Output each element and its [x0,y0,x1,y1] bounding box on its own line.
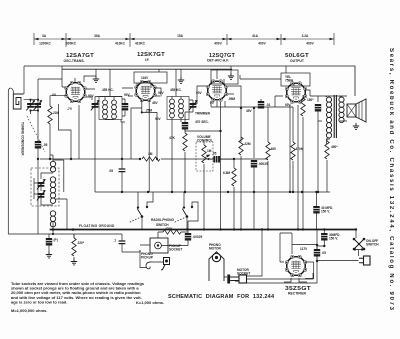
node label 50L6GT [285,53,309,63]
node box V4 [281,73,310,86]
capacitor .05 wiper [214,156,221,163]
svg-text:.00025: .00025 [193,235,203,239]
svg-text:460: 460 [271,147,277,151]
wire IF2 top feed [175,69,177,96]
svg-text:FLOATING GROUND: FLOATING GROUND [79,224,115,228]
ground V3 in box [228,73,234,79]
wire floating ground bus [50,229,356,231]
svg-text:455 KC.: 455 KC. [102,88,114,92]
resistor R 1M horizontal [142,157,160,161]
transformer output primary [326,97,331,138]
wire IF2 wiring [172,97,193,193]
wire mid rail AVC [40,158,268,160]
node junctions [37,107,357,262]
speaker SP1 [347,96,366,122]
wire IF1 secondary drop [121,120,125,123]
wire .1 leads [74,234,140,252]
svg-text:SWITCH: SWITCH [366,243,379,247]
svg-text:0V: 0V [52,93,57,97]
svg-text:(P): (P) [54,238,58,242]
svg-text:OUTPUT: OUTPUT [290,59,305,63]
svg-text:.00025: .00025 [258,162,268,166]
resistor V4 cathode 180 [301,98,305,116]
resistor R1 22M [48,106,52,124]
svg-text:1200KC: 1200KC [39,42,51,46]
svg-text:90V: 90V [285,103,292,107]
svg-text:45V: 45V [152,101,159,105]
resistor field 450 [325,141,329,159]
wire dash link [27,116,45,152]
wire V4 drops [240,66,294,86]
wire 470K phono leads [158,231,186,233]
inductor IF2 primary [170,99,175,118]
svg-text:DET-AVC-A.F.: DET-AVC-A.F. [207,59,229,63]
wire dimension line [34,33,334,47]
svg-text:.01: .01 [266,103,271,107]
svg-text:RECTIFIER: RECTIFIER [288,292,306,296]
capacitor 40MFD B [321,233,327,241]
svg-text:15A: 15A [177,34,184,38]
svg-text:400V: 400V [258,42,266,46]
wire plug line [317,260,359,262]
capacitor .05 left [119,169,126,172]
pickup socket box [140,232,168,253]
wire phono caps wiring [162,232,189,246]
inductor IF1 primary [103,100,108,119]
ground V2 right [178,77,184,83]
svg-text:.25M: .25M [145,109,152,113]
node label 12SQ7GT [207,53,235,63]
capacitor osc trimmer C2 [33,100,42,110]
svg-text:M=1,000,000 ohms.: M=1,000,000 ohms. [11,308,47,313]
wire IF1 wiring [95,97,125,193]
node label 12SK7GT [137,52,165,62]
svg-text:K=1,000 ohms.: K=1,000 ohms. [136,300,164,305]
wire gnd stub V2 [180,69,182,77]
svg-text:470K: 470K [296,147,304,151]
wire .22M lower [240,156,242,230]
capacitor .1 phono [119,241,126,244]
svg-text:90V: 90V [88,94,95,98]
tube V3 12SQ7GT [206,80,228,102]
wire cap drop [317,112,319,193]
wire V5 bottom pins [284,278,307,282]
wire 22M leads [50,96,66,159]
inductor osc coil L2 [50,161,55,227]
wire mid2 leads [220,158,234,160]
ground speaker [353,123,359,129]
phono pickup head [140,250,170,270]
capacitor .00025 phono [185,233,191,241]
resistor 470K phono [163,230,181,234]
capacitor antenna trimmer C1 [26,100,35,110]
svg-text:150 V.: 150 V. [321,210,330,214]
wire 6.8M leads [185,102,234,230]
svg-text:SOCKET: SOCKET [169,248,182,252]
wire V3 side links [197,86,241,107]
svg-text:OSC-TRANS.: OSC-TRANS. [63,59,84,63]
wire coupling leads [260,99,262,109]
capacitor C .02 [315,104,321,112]
wire V1 plate links [86,89,95,100]
node misc voltage labels [67,101,308,251]
wire transformer leads [318,96,347,144]
wire V3 drops [217,66,231,84]
svg-text:220*: 220* [78,241,85,245]
capacitor C .01 coupling [258,101,264,109]
wire antenna top lead [24,66,62,94]
svg-text:180*: 180* [307,98,314,102]
svg-text:3.2A: 3.2A [302,34,309,38]
wire cathode leads [302,95,304,192]
wire 40A leads [316,192,318,230]
transformer output core [334,95,336,138]
svg-text:SCHEMATIC DIAGRAM FOR 132.2: SCHEMATIC DIAGRAM FOR 132.244 [168,294,275,300]
capacitor osc padder C3 [37,179,46,189]
wire 220 leads [73,257,75,259]
capacitor IF1 trimmer right [122,103,128,111]
motor socket plug [235,275,247,283]
wire V1 grid loop [62,66,96,87]
svg-text:TRIMMER: TRIMMER [195,112,211,116]
svg-text:TUNING CONDENSER: TUNING CONDENSER [21,122,25,156]
wire lower rail [95,191,330,193]
svg-text:75BA: 75BA [285,79,294,83]
svg-text:0V: 0V [210,101,215,105]
svg-text:.22M: .22M [244,142,251,146]
svg-text:117V: 117V [300,247,308,251]
wire field leads [327,138,331,192]
potentiometer R volume [196,142,213,171]
svg-text:PICKUP: PICKUP [141,256,154,260]
transformer IF1 box [99,97,122,120]
svg-text:MOTOR: MOTOR [209,247,222,251]
tube V4 50L6GT [285,82,307,104]
resistor .22M [239,137,243,155]
tube V1 12SA7GT [65,81,87,103]
svg-text:47K: 47K [169,136,176,140]
ground 220 [71,259,77,265]
inductor IF2 secondary [179,99,184,118]
svg-text:400V: 400V [214,42,222,46]
svg-text:12SK7GT: 12SK7GT [137,52,165,58]
svg-text:470 SEC.: 470 SEC. [195,120,209,124]
capacitor IF2 trimmer [189,100,198,110]
svg-text:450*: 450* [331,145,338,149]
node dim labels [39,34,314,46]
svg-text:41A: 41A [252,34,259,38]
capacitor .05 bus left [46,238,52,246]
tube V2 12SK7GT [135,80,157,102]
switch S2 radio-phono [174,206,193,223]
wire pot leads [203,140,205,230]
phono motor M [209,252,224,281]
inductor IF1 secondary [112,100,117,119]
wire 460 lower [267,161,269,230]
wire .05 rect leads [317,246,324,261]
transformer IF2 box [167,97,189,120]
svg-text:3A: 3A [42,34,47,38]
svg-text:1M: 1M [148,152,153,156]
wire top B+ rail [62,66,355,96]
svg-text:6.8M: 6.8M [223,171,230,175]
node footnote paragraph [11,281,164,313]
wire wiper arrow [208,158,214,160]
svg-text:470K: 470K [165,227,173,231]
node dashed osc box [31,168,59,206]
ground V1 [93,76,99,82]
AC plug P1 [359,256,370,265]
wire switch connections [355,230,362,257]
wire output top rail [310,96,347,102]
wire padder wiring [34,173,53,205]
wire switch drops [138,192,198,233]
svg-text:I.F.: I.F. [145,58,150,62]
resistor 220 bus [72,238,76,256]
svg-text:.05: .05 [322,251,327,255]
svg-text:age is zero or too low to read: age is zero or too low to read. [11,299,67,304]
resistor 470K [291,142,295,160]
wire motor socket cords [247,230,318,284]
wire V1 bottom drops [59,104,80,159]
wire 470K leads [275,107,293,192]
svg-text:90V: 90V [155,117,162,121]
node box V3 [211,70,238,84]
wire V3 rail [211,96,281,158]
capacitor IF2 fixed [182,122,188,130]
svg-text:.05: .05 [212,152,217,156]
node dim arrows [34,38,334,40]
svg-text:150 V.: 150 V. [329,237,338,241]
wire antenna left drop [8,88,13,234]
svg-text:RADIO-PHONO: RADIO-PHONO [151,218,175,222]
node heater dots [70,158,299,231]
wire V2 side links [122,88,161,97]
wire 40B leads [323,230,325,247]
wire .05 leads [121,159,123,192]
node label 12SA7GT [63,53,94,63]
capacitor .00025 mid [251,160,257,168]
capacitor 40MFD A [313,206,319,214]
resistor 6.8M [232,168,236,186]
wire V5 top right [292,230,317,279]
svg-text:.05M: .05M [228,97,235,101]
motor plug cord [224,276,227,278]
tube V5 35Z5GT [285,255,307,277]
svg-text:45V: 45V [246,109,253,113]
svg-text:410KC: 410KC [115,42,126,46]
node label 35Z5GT [285,286,311,296]
capacitor IF1 trimmer left [91,100,100,110]
ground bus cap [46,252,52,258]
svg-text:116V: 116V [141,76,149,80]
wire V2 bottom drops [131,100,157,192]
resistor 460 [266,142,270,160]
svg-text:600KC: 600KC [66,42,77,46]
svg-text:-7V: -7V [67,107,73,111]
node box V2 [134,72,167,83]
switch S1 radio-phono [129,206,148,223]
wire osc coil leads [50,155,67,230]
capacitor .05 rect [314,249,320,257]
resistor R5 47K [183,133,187,151]
svg-text:410KC: 410KC [135,42,146,46]
svg-text:90V: 90V [124,93,131,97]
wire V2 drops [137,69,159,88]
antenna loop L1 [13,94,23,109]
wire gnd stub V1 [95,69,97,76]
wire trimmer drops [24,79,62,234]
wire cap lower [253,168,255,230]
wire 47K leads [184,130,186,193]
svg-text:SOCKET: SOCKET [237,272,250,276]
svg-text:.05: .05 [43,143,48,147]
wire rectifier B feed [302,192,304,230]
wire IF1 top feed [109,69,111,96]
capacitor osc padder C4 [37,190,46,200]
node label voltages [52,91,314,102]
svg-text:Sears, Roebuck and Co. Chassis: Sears, Roebuck and Co. Chassis 132.244, … [388,48,394,311]
wire bottom thin return [8,230,122,240]
wire cap leads + ground [48,246,50,252]
svg-text:400V: 400V [306,42,314,46]
svg-text:.1: .1 [113,239,116,243]
svg-text:.05: .05 [109,169,114,173]
switch on-off [353,238,366,251]
svg-text:39A: 39A [94,34,101,38]
capacitor osc grid .05 [35,141,41,149]
wire V4 side links [281,90,310,230]
wire V5 left box [280,233,292,262]
transformer output secondary [339,97,344,123]
